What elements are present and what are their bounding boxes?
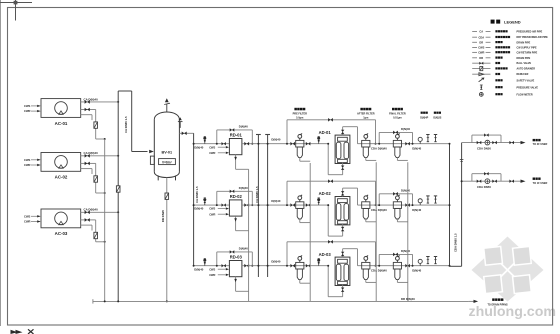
label pre filter column [293,108,308,120]
junction RD-02 bypass right [251,204,253,206]
valve before pre-filter train 3 [290,264,292,268]
bypass pipe RD-01 [217,130,253,144]
junction header B train 3 [267,265,269,267]
svg-text:D(N)40: D(N)40 [271,138,280,142]
svg-text:CWR: CWR [209,273,215,277]
svg-text:AD-02: AD-02 [319,191,332,196]
CA header vertical DN65 [117,91,119,301]
svg-text:CA DN65 1.5: CA DN65 1.5 [195,186,199,203]
legend row CW SUPPLY PIPE [472,46,537,50]
CDA header bottom tie [450,265,462,267]
valve on final bypass train 2 [393,192,395,196]
adsorption dryer AD-03 [335,257,350,285]
adsorption dryer AD-01 [335,135,350,163]
valve on AC-02 outlet [85,154,88,158]
valve on branch 2 bypass [484,172,486,175]
CWR inlet arrow AC-03 [24,220,40,224]
CDA supply header vertical [461,143,463,267]
bypass pipe AD-02 [287,181,376,205]
vent pipe AC-01 [81,115,92,120]
svg-text:AFTER FILTER: AFTER FILTER [357,113,375,116]
final filter bypass train 3 [379,254,412,265]
svg-text:D(N)40: D(N)40 [271,260,280,264]
valve branch 2 c [509,180,511,183]
pipe main line RD-01 to AD riser [242,143,328,145]
pre-filter train 1 [299,138,301,140]
valve branch 2 a [477,180,479,183]
svg-text:BV-01: BV-01 [162,151,173,155]
valve on AC-03 drain [85,218,88,222]
svg-text:CWS: CWS [478,46,484,50]
svg-text:CDA DN50: CDA DN50 [477,147,491,151]
valve inlet RD-02 [222,203,224,206]
label V=6m3 box [159,159,176,165]
label to drain piping [488,298,508,306]
svg-text:DRY PRESSURED AIR PIPE: DRY PRESSURED AIR PIPE [517,36,549,39]
vessel BV-01 shell [154,119,179,171]
junction RD-01 bypass right [251,143,253,145]
svg-text:D(N)40: D(N)40 [412,147,421,151]
valve on AD-01 bypass [328,118,330,122]
refrigerated dryer RD-01 [229,139,242,155]
pipe AD-03 inlet riser [328,266,342,297]
pipe AD-03 outlet top [343,249,358,266]
vessel legs [158,176,175,181]
flow indicator before AD-03 [318,262,320,265]
svg-text:AC-01: AC-01 [55,121,68,126]
svg-text:5.0μm: 5.0μm [296,116,304,119]
svg-text:AC-02: AC-02 [55,175,68,180]
junction AC-01 drain [104,138,106,140]
flow indicator before AD-02 [318,202,320,205]
auto-drainer AC-02 [94,176,98,182]
svg-text:BALL VALVE: BALL VALVE [517,62,532,65]
junction AD-02 bypass left [286,204,288,206]
capped header stub B [265,135,270,278]
flow meter bypass branch 1 [472,135,501,143]
junction CDA header train 3 [449,265,451,267]
final filter bypass train 2 [379,194,412,205]
valve AD-02 outlet [341,191,344,193]
RD feed header vertical [193,133,195,265]
pre-filter train 2 [299,200,301,202]
compressor AC-01 [41,99,81,118]
after-filter train 2 [365,200,367,202]
auto-drainer AC-01 [94,122,98,128]
svg-text:AC-03: AC-03 [55,231,68,236]
svg-text:D(N)40: D(N)40 [239,186,248,190]
after-filter drain collector [366,158,376,302]
valve inlet RD-01 [222,142,224,145]
svg-text:CWR: CWR [209,151,215,155]
valve branch 1 a [477,141,479,144]
pipe inlet RD-03 [194,265,230,267]
adsorption dryer AD-02 [335,197,350,225]
svg-text:CW SUPPLY PIPE: CW SUPPLY PIPE [517,47,537,50]
svg-text:CA D(N)40: CA D(N)40 [84,208,99,212]
junction final bypass left train 1 [378,143,380,145]
flow indicator inlet RD-02 [204,202,206,205]
pipe AD-02 outlet top [343,188,358,205]
junction RD-01 bypass left [216,143,218,145]
junction final bypass right train 2 [412,204,414,206]
auto-drainer AC-03 [94,232,98,238]
final filter train 1 [396,138,398,140]
junction final bypass right train 1 [412,143,414,145]
valve branch 1 b [492,141,494,144]
CWR inlet arrow AC-01 [24,109,40,113]
svg-text:CA DN65 1.5: CA DN65 1.5 [255,186,259,203]
junction AC-02 outlet at header [117,155,119,157]
legend row SAFETY VALVE [479,78,535,83]
svg-text:CWR: CWR [24,163,30,167]
CWR arrow RD-03 [209,273,229,277]
pipe inlet RD-01 [194,143,230,145]
svg-text:CDA DN50: CDA DN50 [477,185,491,189]
pressure valve train 1 [435,135,437,142]
CWR arrow RD-01 [209,151,229,155]
arrow branch 1 [521,141,526,144]
final filter bypass train 1 [379,132,412,143]
pipe AD-02 inlet riser [328,205,342,236]
valve AD-02 inlet [341,227,344,229]
junction AC-03 outlet at header [117,211,119,213]
junction header A train 3 [257,265,259,267]
pressure valve train 3 [435,257,437,264]
svg-text:PRE FILTER: PRE FILTER [293,113,308,116]
junction feed header RD-03 [193,265,195,267]
svg-text:AD-03: AD-03 [319,252,332,257]
svg-text:CWS: CWS [209,207,215,211]
svg-text:D(N)40: D(N)40 [194,145,203,149]
svg-text:D(N)40: D(N)40 [194,267,203,271]
image left edge artifact [0,0,2,326]
valve on final bypass train 3 [393,253,395,257]
label safety valve column [433,112,441,120]
svg-text:DRAIN PIPE: DRAIN PIPE [517,57,531,60]
compressor AC-02 [41,153,81,172]
valve after final filter train 2 [405,203,407,207]
junction AD-01 bypass left [286,143,288,145]
junction CDA header train 2 [449,204,451,206]
arrow to drain piping [469,300,479,303]
final filter train 3 [396,260,398,262]
valve after pre-filter train 1 [306,142,308,146]
flow indicator before AD-01 [318,140,320,143]
arrow into vessel inlet [149,150,154,153]
flow meter branch 1 [485,140,490,145]
junction header B train 1 [267,143,269,145]
CWS inlet arrow AC-03 [24,214,40,218]
drain arrow RD-01 [234,155,248,170]
valve after final filter train 3 [405,264,407,268]
valve branch 1 c [509,141,511,144]
svg-text:DR DN25: DR DN25 [161,210,165,222]
svg-text:PRESSURE VALVE: PRESSURE VALVE [517,86,539,89]
CDA collect header vertical [449,144,451,267]
svg-text:1μm: 1μm [363,116,369,119]
legend row PRESSURED AIR PIPE [472,30,542,34]
svg-text:RD-02: RD-02 [230,194,243,199]
svg-text:FLOW METER: FLOW METER [517,93,533,96]
svg-text:CWS: CWS [209,145,215,149]
svg-text:DR: DR [479,56,483,60]
pipe user branch 1 [462,142,521,144]
svg-text:CA D(N)40: CA D(N)40 [84,97,99,101]
vent pipe AC-02 [81,169,92,174]
svg-text:CWS: CWS [24,104,30,108]
auto-drainer on CA header [116,186,120,192]
junction header A train 2 [257,204,259,206]
svg-text:CWR: CWR [209,212,215,216]
pressure gauge train 2 [419,203,421,205]
pre-filter train 3 [299,260,301,262]
svg-text:0.01μm: 0.01μm [393,116,402,119]
junction AD-02 inlet riser [327,204,329,206]
drain collector pipe vertical x=104.7 [104,139,106,301]
safety valve train 2 [427,196,429,203]
legend row FLOW METER [479,93,532,97]
label destination branch 2 [533,178,548,185]
svg-text:CWR: CWR [24,220,30,224]
legend row DRAIN PIPE [472,40,530,44]
pressure gauge train 1 [419,141,421,143]
pipe main line RD-03 to AD riser [242,265,328,267]
refrigerated dryer RD-03 [229,261,242,277]
auto-drainer on vessel drain [165,193,169,199]
junction final bypass right train 3 [412,265,414,267]
valve outlet RD-01 [244,142,246,146]
bypass pipe RD-02 [217,191,253,205]
drain pipe AC-02 [81,163,105,193]
svg-text:DRAIN PIPE: DRAIN PIPE [517,41,531,44]
svg-text:D(N)40: D(N)40 [412,269,421,273]
valve on final bypass train 1 [393,131,395,135]
CWR arrow RD-02 [209,212,229,216]
junction RD-02 bypass left [216,204,218,206]
junction AD-02 bypass right [375,204,377,206]
svg-text:TO 1F USER: TO 1F USER [533,182,548,185]
reducer on supply header [460,160,464,162]
safety valve train 3 [427,257,429,264]
bypass pipe AD-01 [287,120,376,144]
junction final bypass left train 3 [378,265,380,267]
valve after final filter train 1 [405,142,407,146]
compressor AC-03 [41,209,81,228]
junction AD-03 inlet riser [327,265,329,267]
vent pipe AC-03 [81,225,92,230]
valve on vessel outlet [182,132,185,136]
safety valve train 1 [427,135,429,142]
svg-text:PRESSURED AIR PIPE: PRESSURED AIR PIPE [517,31,543,34]
svg-text:LEGEND: LEGEND [504,20,521,25]
junction branch 2 on supply header [461,180,463,182]
pre-filter drain collector [300,158,310,302]
svg-text:CA DN65 1.5: CA DN65 1.5 [124,116,128,133]
svg-text:SAFETY VALVE: SAFETY VALVE [517,80,535,83]
valve on AC-02 drain [85,162,88,166]
corner marks bottom-left outside frame [11,329,34,334]
pipe CA outlet AC-01 to header [81,101,119,103]
junction CA header at drain [117,300,119,302]
svg-text:CWR: CWR [24,109,30,113]
svg-text:D(N)40: D(N)40 [412,208,421,212]
svg-text:D(N)40: D(N)40 [401,127,410,131]
junction final bypass left train 2 [378,204,380,206]
pipe vessel outlet [179,132,193,134]
valve AD-03 inlet [341,288,344,290]
svg-text:AD-01: AD-01 [319,130,332,135]
legend row CW RETURN PIPE [472,51,537,55]
vessel top nozzle and safety valve [164,98,170,112]
svg-text:D(N)4P: D(N)4P [420,116,428,119]
svg-text:D(N)40: D(N)40 [271,199,280,203]
pipe inlet RD-02 [194,204,230,206]
junction feed header RD-01 [193,143,195,145]
svg-text:D(N)40: D(N)40 [239,125,248,129]
svg-text:RD-03: RD-03 [230,255,243,260]
level gauge on vessel left [150,156,154,164]
svg-text:CWR: CWR [478,51,484,55]
CWS arrow RD-03 [209,267,229,271]
svg-text:D(N)40: D(N)40 [239,247,248,251]
drain pipe AC-03 [81,220,105,242]
svg-text:CDA D(N)40: CDA D(N)40 [371,269,387,273]
svg-text:D(N)40: D(N)40 [194,207,203,211]
valve AD-01 inlet [341,166,344,168]
final filter train 2 [396,200,398,202]
valve on RD-03 bypass [230,250,232,253]
svg-text:CW RETURN PIPE: CW RETURN PIPE [517,51,538,54]
svg-text:CA D(N)40: CA D(N)40 [84,151,99,155]
label destination branch 1 [533,139,548,146]
junction vessel drain at drain header [166,300,168,302]
valve inlet RD-03 [222,264,224,267]
pipe CA outlet AC-02 to header [81,155,119,157]
svg-text:CDA D(N)40: CDA D(N)40 [371,208,387,212]
label pressure gauge column [420,112,428,120]
pipe AD-01 outlet top [343,127,358,144]
svg-text:CWS: CWS [24,214,30,218]
drain arrow RD-03 [234,277,248,292]
pressure gauge train 3 [419,263,421,265]
valve on AD-03 bypass [328,240,330,244]
valve AD-01 outlet [341,130,344,132]
junction AD-01 bypass right [375,143,377,145]
RD drain collector [248,169,250,301]
svg-text:D(N)40: D(N)40 [401,189,410,193]
pressure valve train 2 [435,196,437,203]
valve branch 2 b [492,180,494,183]
svg-text:D(N)2S: D(N)2S [433,116,441,119]
bypass pipe RD-03 [217,252,253,266]
svg-text:AUTO-DRAINER: AUTO-DRAINER [517,68,536,71]
registration cross top-left [0,0,32,21]
svg-text:D(N)40: D(N)40 [401,249,410,253]
junction AC-03 drain [104,241,106,243]
valve outlet RD-03 [244,264,246,268]
svg-text:DR: DR [479,40,483,44]
junction AD-03 bypass right [375,265,377,267]
pipe user branch 2 [462,180,521,182]
vessel drain pipe DR DN25 [166,178,168,302]
drain pipe AC-01 [81,110,105,140]
label after filter column [357,108,375,120]
legend row DRY PRESSURED AIR PIPE [472,35,548,39]
junction AD-03 bypass left [286,265,288,267]
svg-text:CDA: CDA [478,35,484,39]
junction CDA header train 1 [449,143,451,145]
after-filter train 3 [365,260,367,262]
svg-text:CWS: CWS [24,158,30,162]
valve AD-03 outlet [341,252,344,254]
svg-text:RD-01: RD-01 [230,133,243,138]
svg-text:TO 2F USER: TO 2F USER [533,143,548,146]
valve before pre-filter train 2 [290,203,292,207]
after-filter train 1 [365,138,367,140]
watermark logo diamond [472,237,544,302]
drain header pipe DR [93,299,469,303]
CWS arrow RD-02 [209,207,229,211]
pipe CA outlet AC-03 to header [81,211,119,213]
CWS inlet arrow AC-01 [24,104,40,108]
flow meter branch 2 [485,179,490,184]
CWS inlet arrow AC-02 [24,158,40,162]
svg-text:V=6m³: V=6m³ [162,160,172,164]
valve on RD-02 bypass [230,190,232,193]
valve on RD-01 bypass [230,128,232,131]
drain arrow RD-02 [234,216,248,231]
refrigerated dryer RD-02 [229,200,242,216]
svg-text:DR D(N)40: DR D(N)40 [401,297,415,301]
valve on AD-02 bypass [328,179,330,183]
svg-text:CWS: CWS [209,267,215,271]
CA header top jog to buffer vessel [118,91,147,152]
legend row BALL VALVE [472,62,531,65]
svg-text:CA: CA [479,30,483,34]
CWS arrow RD-01 [209,145,229,149]
pipe AD-01 inlet riser [328,144,342,175]
junction AC-02 drain [104,192,106,194]
junction AD-01 inlet riser [327,143,329,145]
junction feed header RD-02 [193,204,195,206]
bypass pipe AD-03 [287,242,376,266]
flow indicator inlet RD-03 [204,262,206,265]
vent valve on vessel shoulder [178,117,183,128]
junction AC-01 outlet at header [117,101,119,103]
pipe main line after AD-03 [358,265,450,267]
valve on branch 1 bypass [484,133,486,136]
svg-text:REDUCER: REDUCER [517,73,529,76]
label final filter column [389,108,406,120]
valve after pre-filter train 2 [306,203,308,207]
CWR inlet arrow AC-02 [24,163,40,167]
flow indicator inlet RD-01 [204,140,206,143]
junction RD-03 bypass left [216,265,218,267]
svg-text:TO DRAIN PIPING: TO DRAIN PIPING [488,303,508,306]
legend row DRAIN PIPE [472,56,530,60]
junction header A train 1 [257,143,259,145]
valve before pre-filter train 1 [290,142,292,146]
pipe main line after AD-02 [358,204,450,206]
valve after pre-filter train 3 [306,264,308,268]
legend row PRESSURE VALVE [480,85,538,89]
arrow branch 2 [521,180,526,183]
svg-text:zhulong.com: zhulong.com [469,304,556,320]
junction header B train 2 [267,204,269,206]
valve on AC-01 outlet [85,100,88,104]
legend title [491,20,521,25]
